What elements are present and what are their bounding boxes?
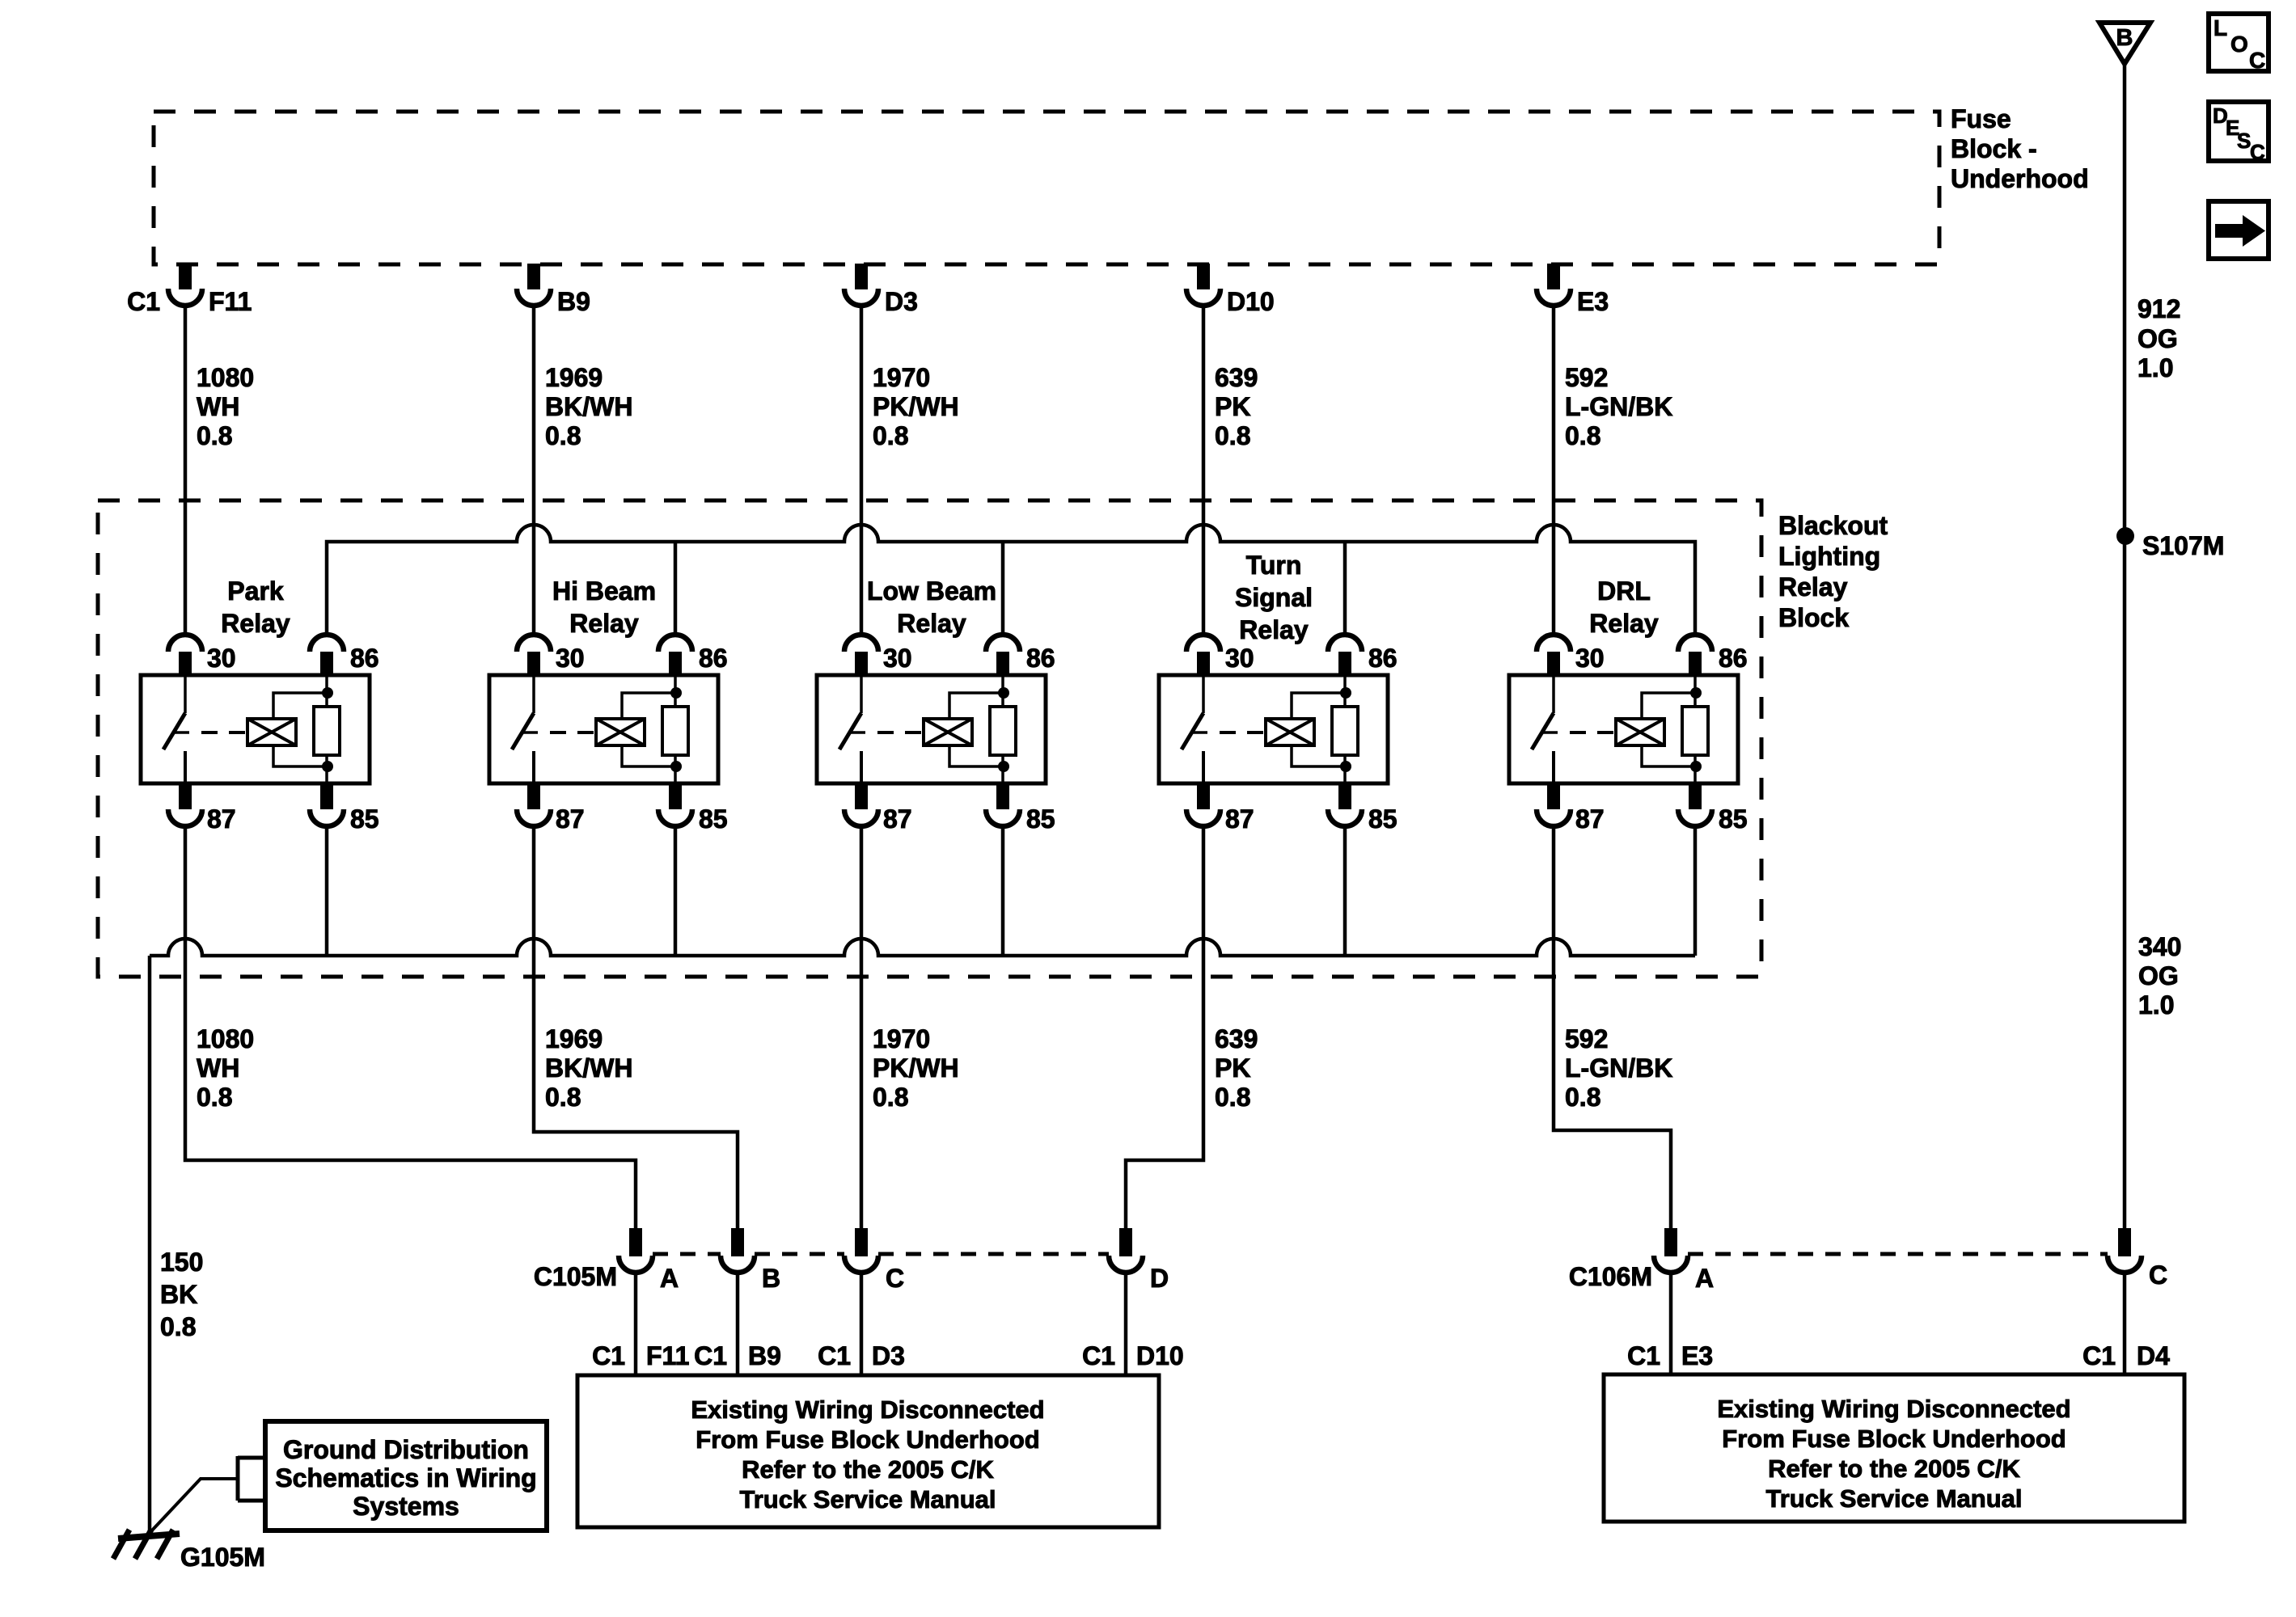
svg-text:1.0: 1.0: [2137, 353, 2173, 382]
svg-text:C1: C1: [127, 287, 160, 316]
pin 87 of DRL Relay: [1547, 783, 1560, 809]
svg-text:F11: F11: [209, 287, 252, 316]
icon: DESC box: [2209, 102, 2269, 161]
wire circuit 1970 PK/WH 0.8 from D3 to relay 30: [860, 305, 864, 636]
svg-text:From Fuse Block Underhood: From Fuse Block Underhood: [1722, 1425, 2066, 1453]
svg-text:340: 340: [2138, 932, 2181, 961]
wire drops from 86 bus to relay 86 pins: [674, 542, 678, 636]
switch contacts of Hi Beam Relay: [532, 675, 535, 713]
relay box of Turn Signal Relay: [1159, 675, 1388, 783]
connector C1 F11 (fuse block output): [179, 264, 192, 289]
svg-text:Block -: Block -: [1951, 134, 2037, 163]
wire circuit 1969 BK/WH 0.8 from B9 to relay 30: [532, 305, 536, 636]
connector C1 B9 (fuse block output): [527, 264, 540, 289]
ground symbol G105M: [118, 1534, 180, 1539]
switch contacts of Turn Signal Relay: [1202, 675, 1205, 713]
suppression resistor of Turn Signal Relay: [1343, 675, 1347, 707]
coil wiring of Turn Signal Relay: [1292, 693, 1346, 719]
suppression resistor of Hi Beam Relay: [674, 675, 677, 707]
svg-text:0.8: 0.8: [545, 421, 581, 450]
svg-text:85: 85: [1368, 804, 1397, 834]
svg-text:1.0: 1.0: [2138, 990, 2174, 1020]
svg-text:1969: 1969: [545, 1024, 603, 1053]
wire circuit 592 L-GN/BK 0.8 from E3 to relay 30: [1552, 305, 1556, 636]
C105M pin A: [629, 1228, 642, 1256]
wire: 150 BK 0.8 ground feed: [148, 956, 152, 1533]
svg-text:Relay: Relay: [897, 609, 966, 638]
svg-text:0.8: 0.8: [1565, 1083, 1600, 1112]
wire 639 PK 0.8 from Turn Signal 87 to C105M D: [1126, 825, 1203, 1228]
wire circuit 639 PK 0.8 from D10 to relay 30: [1202, 305, 1206, 636]
svg-text:OG: OG: [2137, 324, 2178, 353]
svg-text:PK: PK: [1215, 1053, 1250, 1083]
svg-text:Park: Park: [227, 576, 284, 606]
svg-text:Existing Wiring Disconnected: Existing Wiring Disconnected: [691, 1395, 1044, 1424]
svg-text:85: 85: [1719, 804, 1748, 834]
wire 1970 PK/WH 0.8 from Low Beam 87 to C105M C: [860, 825, 864, 1228]
pin 86 of DRL Relay: [1678, 635, 1712, 652]
switch contacts of Low Beam Relay: [860, 675, 863, 713]
pin 86 of Hi Beam Relay: [658, 635, 692, 652]
svg-text:C: C: [886, 1264, 904, 1293]
coil wiring of Low Beam Relay: [949, 693, 1004, 719]
wire 340 OG 1.0 from S107M to C106M C: [2123, 536, 2127, 1228]
svg-text:1969: 1969: [545, 363, 603, 392]
relay box of Low Beam Relay: [817, 675, 1046, 783]
svg-text:0.8: 0.8: [160, 1312, 196, 1341]
svg-text:G105M: G105M: [180, 1543, 265, 1572]
wire drops from relay 85 pins to 85 bus: [325, 825, 329, 956]
svg-text:S107M: S107M: [2142, 531, 2224, 560]
svg-text:0.8: 0.8: [197, 1083, 232, 1112]
svg-text:BK/WH: BK/WH: [545, 392, 632, 421]
svg-text:86: 86: [1026, 644, 1055, 673]
svg-text:Low Beam: Low Beam: [867, 576, 996, 606]
wire: 85 ground bus: [150, 939, 1695, 956]
junction dots of Park Relay: [322, 687, 333, 699]
svg-text:0.8: 0.8: [1215, 421, 1250, 450]
actuating dashed link of Turn Signal Relay: [1220, 731, 1266, 734]
blackout lighting relay block (dashed box): [98, 500, 1761, 977]
svg-text:DRL: DRL: [1597, 576, 1651, 606]
svg-text:592: 592: [1565, 363, 1608, 392]
svg-text:BK/WH: BK/WH: [545, 1053, 632, 1083]
svg-text:85: 85: [1026, 804, 1055, 834]
svg-text:Blackout: Blackout: [1778, 511, 1888, 540]
svg-text:87: 87: [883, 804, 912, 834]
pin 30 of Hi Beam Relay: [517, 635, 551, 652]
svg-text:D10: D10: [1227, 287, 1275, 316]
svg-text:Systems: Systems: [353, 1492, 459, 1521]
pin 30 of DRL Relay: [1537, 635, 1571, 652]
svg-text:1970: 1970: [873, 1024, 930, 1053]
svg-text:D: D: [1150, 1264, 1169, 1293]
svg-text:0.8: 0.8: [545, 1083, 581, 1112]
svg-text:Fuse: Fuse: [1951, 104, 2011, 133]
svg-text:1970: 1970: [873, 363, 930, 392]
junction dots of Turn Signal Relay: [1340, 687, 1351, 699]
svg-text:Refer to the 2005 C/K: Refer to the 2005 C/K: [742, 1455, 994, 1484]
junction dots of Hi Beam Relay: [670, 687, 682, 699]
pin 85 of Low Beam Relay: [996, 783, 1009, 809]
svg-text:0.8: 0.8: [873, 1083, 908, 1112]
svg-text:85: 85: [699, 804, 728, 834]
pin 30 of Turn Signal Relay: [1186, 635, 1220, 652]
svg-text:C1: C1: [818, 1341, 851, 1370]
svg-text:C1: C1: [1627, 1341, 1660, 1370]
svg-text:C1: C1: [592, 1341, 625, 1370]
svg-text:Schematics in Wiring: Schematics in Wiring: [275, 1463, 536, 1492]
coil of Park Relay: [247, 719, 296, 745]
svg-text:639: 639: [1215, 363, 1258, 392]
relay box of Hi Beam Relay: [489, 675, 718, 783]
wire 1080 WH 0.8 from Park 87 to C105M A: [185, 825, 636, 1228]
svg-text:B: B: [2116, 25, 2133, 51]
coil of Turn Signal Relay: [1266, 719, 1314, 745]
svg-text:WH: WH: [197, 392, 239, 421]
svg-text:1080: 1080: [197, 1024, 254, 1053]
note box: existing wiring disconnected (left): [577, 1375, 1159, 1527]
pin 86 of Park Relay: [310, 635, 344, 652]
svg-text:30: 30: [556, 644, 585, 673]
coil of Low Beam Relay: [924, 719, 972, 745]
svg-text:D3: D3: [885, 287, 918, 316]
svg-text:87: 87: [1575, 804, 1605, 834]
icon: LOC box: [2209, 14, 2269, 71]
svg-text:0.8: 0.8: [1215, 1083, 1250, 1112]
svg-text:85: 85: [350, 804, 379, 834]
svg-text:Truck Service Manual: Truck Service Manual: [1765, 1484, 2022, 1513]
suppression resistor of DRL Relay: [1693, 675, 1697, 707]
svg-text:Relay: Relay: [569, 609, 639, 638]
svg-text:Signal: Signal: [1235, 583, 1313, 612]
pin 87 of Park Relay: [179, 783, 192, 809]
svg-text:Relay: Relay: [1589, 609, 1659, 638]
svg-text:0.8: 0.8: [197, 421, 232, 450]
switch contacts of Park Relay: [184, 675, 187, 713]
relay box of Park Relay: [141, 675, 370, 783]
svg-text:L-GN/BK: L-GN/BK: [1565, 1053, 1672, 1083]
svg-text:C: C: [2249, 48, 2265, 73]
svg-text:WH: WH: [197, 1053, 239, 1083]
pin 30 of Low Beam Relay: [844, 635, 878, 652]
svg-text:Block: Block: [1778, 603, 1849, 632]
pin 87 of Turn Signal Relay: [1197, 783, 1210, 809]
actuating dashed link of Low Beam Relay: [877, 731, 924, 734]
svg-text:OG: OG: [2138, 961, 2179, 990]
svg-text:Ground Distribution: Ground Distribution: [283, 1435, 529, 1464]
pin 85 of DRL Relay: [1689, 783, 1702, 809]
svg-text:B: B: [762, 1264, 780, 1293]
svg-text:Underhood: Underhood: [1951, 164, 2089, 193]
pin 85 of Turn Signal Relay: [1338, 783, 1351, 809]
svg-text:Hi Beam: Hi Beam: [552, 576, 656, 606]
svg-text:Existing Wiring Disconnected: Existing Wiring Disconnected: [1717, 1395, 2070, 1423]
svg-text:86: 86: [350, 644, 379, 673]
coil of Hi Beam Relay: [596, 719, 645, 745]
junction dots of Low Beam Relay: [998, 687, 1009, 699]
svg-text:86: 86: [699, 644, 728, 673]
svg-text:87: 87: [207, 804, 236, 834]
svg-text:86: 86: [1719, 644, 1748, 673]
fuse block underhood (dashed box): [154, 112, 1939, 264]
svg-text:C1: C1: [694, 1341, 727, 1370]
svg-text:L: L: [2214, 15, 2227, 40]
coil wiring of Hi Beam Relay: [622, 693, 676, 719]
svg-text:912: 912: [2137, 294, 2180, 323]
svg-text:O: O: [2230, 32, 2248, 57]
svg-text:D10: D10: [1136, 1341, 1184, 1370]
svg-text:30: 30: [1225, 644, 1254, 673]
svg-text:A: A: [660, 1264, 679, 1293]
splice S107M: [2116, 527, 2134, 545]
svg-text:E3: E3: [1577, 287, 1609, 316]
svg-text:C1: C1: [2082, 1341, 2116, 1370]
svg-text:150: 150: [160, 1248, 203, 1277]
svg-text:Turn: Turn: [1246, 551, 1302, 580]
svg-text:Lighting: Lighting: [1778, 542, 1880, 571]
wire 592 L-GN/BK 0.8 from DRL 87 to C106M A: [1554, 825, 1671, 1228]
svg-text:PK/WH: PK/WH: [873, 1053, 959, 1083]
svg-text:C106M: C106M: [1569, 1262, 1652, 1291]
svg-text:639: 639: [1215, 1024, 1258, 1053]
suppression resistor of Low Beam Relay: [1001, 675, 1004, 707]
svg-text:D4: D4: [2137, 1341, 2170, 1370]
svg-text:PK/WH: PK/WH: [873, 392, 959, 421]
pin 85 of Hi Beam Relay: [669, 783, 682, 809]
svg-text:D3: D3: [872, 1341, 905, 1370]
svg-text:A: A: [1695, 1264, 1714, 1293]
svg-text:C: C: [2250, 140, 2265, 164]
svg-text:Truck Service Manual: Truck Service Manual: [739, 1485, 996, 1514]
bracket to ground distribution box: [236, 1456, 240, 1501]
switch contacts of DRL Relay: [1552, 675, 1555, 713]
svg-text:Refer to the 2005 C/K: Refer to the 2005 C/K: [1768, 1454, 2020, 1483]
svg-text:F11: F11: [646, 1341, 689, 1370]
svg-text:B9: B9: [748, 1341, 781, 1370]
connector C1 D10 (fuse block output): [1197, 264, 1210, 289]
wire 1969 BK/WH 0.8 from Hi Beam 87 to C105M B: [534, 825, 738, 1228]
coil wiring of DRL Relay: [1642, 693, 1696, 719]
svg-text:Relay: Relay: [1239, 615, 1309, 644]
svg-text:0.8: 0.8: [1565, 421, 1600, 450]
svg-text:87: 87: [1225, 804, 1254, 834]
svg-text:592: 592: [1565, 1024, 1608, 1053]
icon: arrow box: [2209, 201, 2269, 259]
coil wiring of Park Relay: [273, 693, 328, 719]
pin 85 of Park Relay: [320, 783, 333, 809]
svg-text:30: 30: [207, 644, 236, 673]
svg-text:C105M: C105M: [534, 1262, 617, 1291]
suppression resistor of Park Relay: [325, 675, 328, 707]
svg-text:PK: PK: [1215, 392, 1250, 421]
svg-text:Relay: Relay: [1778, 572, 1848, 602]
note box: ground distribution schematics: [265, 1421, 547, 1530]
svg-text:30: 30: [1575, 644, 1605, 673]
C105M pin B: [731, 1228, 744, 1256]
wire to ground distribution reference: [150, 1479, 238, 1533]
connector C1 D3 (fuse block output): [855, 264, 868, 289]
C105M pin C: [855, 1228, 868, 1256]
svg-text:87: 87: [556, 804, 585, 834]
actuating dashed link of DRL Relay: [1570, 731, 1616, 734]
junction dots of DRL Relay: [1690, 687, 1702, 699]
wire: 86 coil bus: [327, 525, 1695, 636]
svg-text:30: 30: [883, 644, 912, 673]
pin 86 of Low Beam Relay: [986, 635, 1020, 652]
svg-text:1080: 1080: [197, 363, 254, 392]
svg-text:0.8: 0.8: [873, 421, 908, 450]
svg-text:L-GN/BK: L-GN/BK: [1565, 392, 1672, 421]
svg-text:C: C: [2149, 1260, 2167, 1290]
actuating dashed link of Hi Beam Relay: [550, 731, 596, 734]
svg-text:B9: B9: [557, 287, 590, 316]
pin 30 of Park Relay: [168, 635, 202, 652]
connector C1 E3 (fuse block output): [1547, 264, 1560, 289]
svg-text:From Fuse Block Underhood: From Fuse Block Underhood: [696, 1425, 1039, 1454]
off-page connector B (triangle): [2099, 23, 2150, 64]
pin 87 of Hi Beam Relay: [527, 783, 540, 809]
C106M pin C: [2118, 1228, 2131, 1256]
svg-text:86: 86: [1368, 644, 1397, 673]
svg-text:Relay: Relay: [221, 609, 290, 638]
C106M pin A: [1664, 1228, 1677, 1256]
wire circuit 1080 WH 0.8 from F11 to relay 30: [184, 305, 188, 636]
svg-text:S: S: [2237, 129, 2251, 153]
svg-text:E3: E3: [1681, 1341, 1713, 1370]
note box: existing wiring disconnected (right): [1604, 1374, 2184, 1522]
svg-text:C1: C1: [1082, 1341, 1115, 1370]
C105M pin D: [1119, 1228, 1132, 1256]
relay box of DRL Relay: [1509, 675, 1738, 783]
wire 912 OG 1.0 from B to S107M: [2123, 64, 2127, 536]
svg-text:BK: BK: [160, 1280, 197, 1309]
pin 86 of Turn Signal Relay: [1328, 635, 1362, 652]
actuating dashed link of Park Relay: [201, 731, 247, 734]
pin 87 of Low Beam Relay: [855, 783, 868, 809]
coil of DRL Relay: [1616, 719, 1664, 745]
